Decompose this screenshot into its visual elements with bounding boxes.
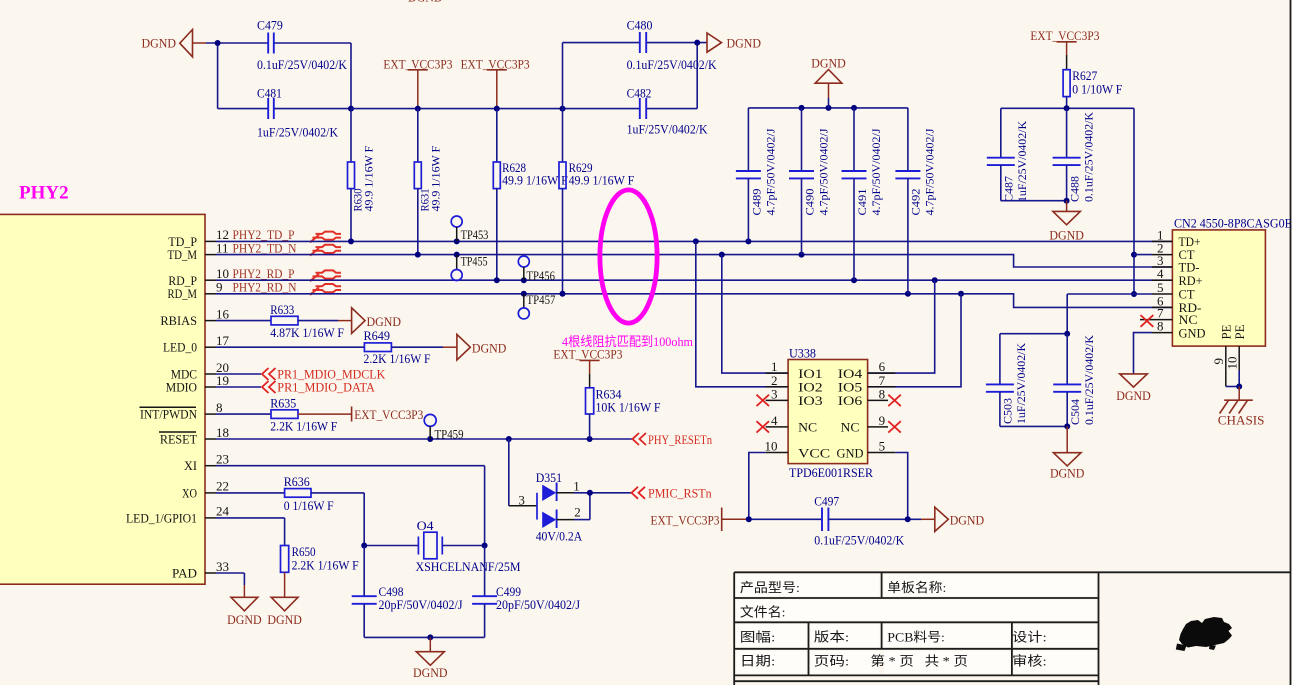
- svg-text:C481: C481: [257, 86, 282, 101]
- svg-text:C480: C480: [627, 18, 653, 33]
- pin CN2.5 CT: [1067, 280, 1194, 302]
- svg-text:49.9 1/16W F: 49.9 1/16W F: [569, 173, 635, 188]
- svg-text:CHASIS: CHASIS: [1218, 412, 1265, 427]
- svg-text:20pF/50V/0402/J: 20pF/50V/0402/J: [496, 597, 580, 612]
- svg-text:DGND: DGND: [1050, 466, 1085, 481]
- diff pair marker TD_N: [310, 245, 341, 256]
- svg-text:DGND: DGND: [811, 55, 846, 70]
- svg-text:PHY2_RD_N: PHY2_RD_N: [233, 280, 298, 295]
- svg-text:EXT_VCC3P3: EXT_VCC3P3: [651, 512, 720, 527]
- wire U338 IO1 to TD_M: [722, 255, 788, 374]
- crystal O4: [361, 518, 521, 574]
- svg-text:33: 33: [216, 559, 229, 574]
- wire TD_P line: [216, 238, 1172, 244]
- svg-text:10K 1/16W F: 10K 1/16W F: [596, 400, 661, 415]
- capacitor C497: [746, 493, 921, 547]
- pin RD_M 9: [168, 280, 223, 302]
- svg-text:2.2K 1/16W F: 2.2K 1/16W F: [364, 351, 431, 366]
- diff pair marker RD_P: [310, 270, 341, 281]
- testpoint TP453: [451, 216, 488, 242]
- svg-text:10: 10: [1225, 357, 1240, 370]
- wire PE join: [1226, 384, 1242, 401]
- pin U338.1 IO1: [766, 359, 823, 381]
- wire XO to crystal: [363, 493, 365, 546]
- svg-text:R635: R635: [270, 395, 296, 410]
- IC U338: [788, 346, 873, 481]
- pin CN2.8 GND: [1134, 319, 1206, 374]
- svg-text:2.2K 1/16W F: 2.2K 1/16W F: [270, 418, 337, 433]
- net marker PHY_RESETn: [633, 432, 713, 447]
- title block white fields: [736, 574, 1097, 673]
- svg-text:19: 19: [216, 373, 229, 388]
- pin LED_1/GPIO1 24: [126, 504, 285, 546]
- pin U338.8 IO6: [838, 386, 901, 408]
- pin RD_P 10: [168, 266, 229, 288]
- capacitor C487: [987, 108, 1029, 202]
- svg-text:C479: C479: [257, 18, 283, 33]
- pin CN2.1 TD+: [1152, 227, 1201, 249]
- svg-text:16: 16: [216, 306, 230, 321]
- svg-text:5: 5: [879, 439, 886, 454]
- svg-text:IO6: IO6: [838, 393, 863, 408]
- svg-text:PCB料号:: PCB料号:: [887, 630, 945, 645]
- svg-text:TD_M: TD_M: [168, 247, 198, 262]
- svg-text:LED_0: LED_0: [163, 340, 197, 355]
- svg-text:文件名:: 文件名:: [740, 605, 786, 620]
- svg-text:RD_M: RD_M: [168, 286, 198, 301]
- svg-text:C491: C491: [857, 188, 869, 215]
- wire C503/C504 rail: [1000, 294, 1070, 337]
- svg-text:DGND: DGND: [950, 513, 985, 528]
- IC PHY2 block: [0, 183, 205, 585]
- ground DGND (crystal): [413, 652, 448, 681]
- resistor R650: [281, 544, 359, 597]
- svg-text:C489: C489: [752, 188, 764, 215]
- svg-text:审核:: 审核:: [1012, 654, 1047, 669]
- power EXT_VCC3P3 (R631): [383, 56, 452, 108]
- svg-text:DGND: DGND: [227, 612, 262, 627]
- svg-text:NC: NC: [841, 420, 860, 435]
- svg-text:D351: D351: [536, 470, 562, 485]
- IC CN2 connector: [1172, 215, 1292, 346]
- ground DGND (PAD): [227, 597, 262, 627]
- pin U338.5 GND: [837, 439, 908, 520]
- svg-text:IO3: IO3: [798, 393, 823, 408]
- signature scribble: [1176, 617, 1232, 651]
- pin XO 22: [182, 479, 229, 501]
- svg-text:产品型号:: 产品型号:: [740, 580, 800, 595]
- svg-text:2.2K 1/16W F: 2.2K 1/16W F: [292, 557, 359, 572]
- svg-text:0.1uF/25V/0402/K: 0.1uF/25V/0402/K: [1084, 334, 1096, 425]
- resistor R633: [216, 302, 352, 340]
- capacitor C489: [736, 108, 778, 242]
- svg-text:DGND: DGND: [142, 36, 177, 51]
- svg-text:RD+: RD+: [1179, 273, 1203, 288]
- svg-text:LED_1/GPIO1: LED_1/GPIO1: [126, 510, 197, 525]
- svg-text:PHY2: PHY2: [19, 183, 69, 204]
- ground DGND (C497): [921, 507, 984, 531]
- pin PAD 33: [172, 559, 244, 598]
- highlight ellipse: [600, 190, 657, 323]
- svg-text:日期:: 日期:: [740, 654, 775, 669]
- svg-text:EXT_VCC3P3: EXT_VCC3P3: [553, 346, 622, 361]
- svg-text:C504: C504: [1070, 399, 1082, 425]
- capacitor C482: [627, 86, 709, 137]
- svg-text:4.7pF/50V/0402/J: 4.7pF/50V/0402/J: [925, 128, 937, 216]
- svg-text:第 * 页 共 * 页: 第 * 页 共 * 页: [871, 654, 968, 669]
- pin CN2.2 CT: [1134, 241, 1195, 263]
- svg-text:4: 4: [1157, 266, 1164, 281]
- svg-text:0.1uF/25V/0402/K: 0.1uF/25V/0402/K: [627, 57, 718, 72]
- wire top-left node: [206, 40, 354, 112]
- title block row1 labels: [740, 580, 946, 595]
- diff pair marker RD_N: [310, 284, 341, 295]
- capacitor C488: [1053, 108, 1096, 202]
- resistor R629: [559, 109, 634, 294]
- capacitor C490: [789, 108, 831, 255]
- svg-text:DGND: DGND: [727, 35, 762, 50]
- resistor R628: [493, 109, 568, 281]
- svg-text:49.9 1/16W F: 49.9 1/16W F: [502, 173, 568, 188]
- svg-text:49.9 1/16W F: 49.9 1/16W F: [364, 146, 376, 212]
- capacitor C480: [627, 18, 718, 73]
- pin U338.7 IO5: [838, 373, 896, 395]
- svg-text:DGND: DGND: [472, 341, 507, 356]
- ground DGND (C504): [1050, 453, 1085, 481]
- svg-text:3: 3: [771, 386, 778, 401]
- capacitor C499: [472, 546, 580, 638]
- svg-text:4.7pF/50V/0402/J: 4.7pF/50V/0402/J: [766, 128, 778, 216]
- pin MDC 20: [171, 360, 261, 382]
- wire D351 branch: [509, 439, 537, 507]
- svg-text:GND: GND: [837, 445, 864, 460]
- svg-text:4.87K 1/16W F: 4.87K 1/16W F: [270, 325, 344, 340]
- svg-text:MDIO: MDIO: [166, 380, 197, 395]
- power EXT_VCC3P3 (R627): [1030, 28, 1099, 70]
- svg-text:单板名称:: 单板名称:: [887, 580, 946, 595]
- testpoint TP455: [451, 253, 487, 280]
- svg-text:C488: C488: [1070, 176, 1082, 202]
- svg-text:XI: XI: [184, 458, 197, 473]
- wire C503/C504 ground rail: [1000, 423, 1070, 452]
- svg-text:40V/0.2A: 40V/0.2A: [536, 529, 583, 544]
- wire R627 rail: [1001, 105, 1137, 297]
- svg-text:8: 8: [879, 386, 886, 401]
- svg-text:PR1_MDIO_DATA: PR1_MDIO_DATA: [277, 380, 375, 395]
- svg-text:TP456: TP456: [527, 268, 556, 283]
- svg-text:INT/PWDN: INT/PWDN: [140, 407, 198, 422]
- net marker PR1_MDIO_MDCLK: [262, 367, 386, 382]
- wire C480 branch: [563, 40, 708, 109]
- power EXT_VCC3P3 (R635): [352, 407, 424, 422]
- svg-text:49.9 1/16W F: 49.9 1/16W F: [430, 146, 442, 212]
- svg-text:R649: R649: [364, 328, 391, 343]
- ground DGND (C488): [1049, 211, 1084, 242]
- svg-text:4.7pF/50V/0402/J: 4.7pF/50V/0402/J: [819, 128, 831, 216]
- svg-text:PE: PE: [1232, 324, 1247, 339]
- pin U338.6 IO4: [838, 359, 896, 381]
- svg-text:9: 9: [879, 413, 886, 428]
- svg-text:C482: C482: [627, 86, 652, 101]
- svg-text:VCC: VCC: [798, 445, 830, 460]
- svg-text:EXT_VCC3P3: EXT_VCC3P3: [354, 407, 423, 422]
- pin CN2.9 PE: [1211, 324, 1234, 386]
- pin CN2.10 PE: [1225, 324, 1248, 386]
- svg-text:图幅:: 图幅:: [740, 630, 775, 645]
- svg-text:17: 17: [216, 333, 230, 348]
- capacitor C492: [895, 108, 936, 294]
- diode D351: [536, 470, 632, 544]
- pin U338.2 IO2: [766, 373, 823, 395]
- net marker PMIC_RSTn: [632, 486, 713, 501]
- svg-text:0 1/10W F: 0 1/10W F: [1072, 81, 1122, 96]
- capacitor C503: [986, 334, 1028, 427]
- svg-text:R633: R633: [270, 302, 294, 317]
- ground DGND (R650): [267, 597, 302, 627]
- svg-text:页码:: 页码:: [814, 654, 849, 669]
- svg-text:C503: C503: [1003, 398, 1015, 424]
- svg-text:C492: C492: [911, 188, 923, 215]
- wire crystal ground rail: [364, 634, 484, 651]
- wire U338 IO2 to TD_P: [696, 241, 788, 386]
- svg-text:TP455: TP455: [461, 253, 488, 268]
- svg-text:0.1uF/25V/0402/K: 0.1uF/25V/0402/K: [814, 533, 905, 548]
- testpoint TP457: [518, 292, 556, 319]
- resistor R635: [216, 395, 352, 433]
- wire RESET net: [216, 436, 632, 442]
- svg-text:20pF/50V/0402/J: 20pF/50V/0402/J: [379, 597, 463, 612]
- svg-text:DGND: DGND: [408, 0, 443, 5]
- svg-text:O4: O4: [417, 518, 435, 533]
- svg-text:4.7pF/50V/0402/J: 4.7pF/50V/0402/J: [871, 128, 883, 216]
- pin INT/PWDN 8: [140, 400, 223, 422]
- svg-text:XO: XO: [182, 485, 197, 500]
- title block row4 labels: [740, 654, 1047, 669]
- pin XI 23: [184, 452, 485, 546]
- net marker PR1_MDIO_DATA: [262, 380, 375, 395]
- svg-text:PAD: PAD: [172, 566, 197, 581]
- wire RD_M line: [216, 291, 1172, 308]
- svg-text:DGND: DGND: [367, 314, 402, 329]
- svg-text:PHY_RESETn: PHY_RESETn: [648, 432, 712, 447]
- pin CN2.4 RD+: [1152, 266, 1203, 288]
- svg-text:R636: R636: [284, 474, 310, 489]
- capacitor C504: [1053, 334, 1096, 427]
- ground DGND (CN2 GND): [1116, 374, 1151, 403]
- power EXT_VCC3P3 (C497): [651, 508, 749, 532]
- ground DGND (top rail): [811, 55, 846, 108]
- svg-text:2: 2: [574, 504, 581, 519]
- pin RBIAS 16: [160, 306, 229, 328]
- svg-text:TP457: TP457: [527, 292, 556, 307]
- title block table: [734, 572, 1290, 685]
- svg-text:1uF/25V/0402/K: 1uF/25V/0402/K: [257, 125, 339, 140]
- svg-text:C487: C487: [1004, 176, 1016, 202]
- wire power rail: [351, 106, 697, 112]
- svg-text:0.1uF/25V/0402/K: 0.1uF/25V/0402/K: [257, 57, 348, 72]
- resistor R630: [348, 109, 376, 242]
- pin CN2.3 TD-: [1152, 253, 1200, 275]
- title block row3 labels: [740, 630, 1047, 645]
- power EXT_VCC3P3 (R634): [553, 346, 622, 388]
- svg-text:8: 8: [1157, 319, 1164, 334]
- svg-text:0 1/16W F: 0 1/16W F: [284, 498, 334, 513]
- pin CN2.6 RD-: [1152, 293, 1202, 315]
- svg-text:1uF/25V/0402/K: 1uF/25V/0402/K: [1016, 342, 1028, 424]
- svg-text:DGND: DGND: [1049, 228, 1084, 243]
- pin U338.9 NC: [841, 413, 901, 435]
- svg-text:EXT_VCC3P3: EXT_VCC3P3: [1030, 28, 1099, 43]
- svg-text:24: 24: [216, 504, 230, 519]
- svg-text:TPD6E001RSER: TPD6E001RSER: [789, 465, 873, 480]
- testpoint TP459: [424, 414, 463, 441]
- wire C487/C488 ground rail: [1001, 198, 1070, 212]
- testpoint TP456: [518, 256, 555, 283]
- svg-text:9: 9: [216, 280, 223, 295]
- svg-text:版本:: 版本:: [814, 630, 849, 645]
- svg-text:22: 22: [216, 479, 229, 494]
- capacitor C481: [257, 86, 339, 140]
- diff pair marker TD_P: [310, 232, 341, 243]
- wire TD_M line: [216, 252, 1172, 267]
- pin TD_M 11: [168, 240, 229, 262]
- svg-text:C490: C490: [805, 188, 817, 215]
- svg-text:TP459: TP459: [435, 427, 464, 442]
- svg-text:U338: U338: [789, 346, 816, 361]
- resistor R636: [216, 474, 364, 513]
- pin TD_P 12: [168, 227, 229, 249]
- svg-text:PMIC_RSTn: PMIC_RSTn: [648, 486, 712, 501]
- pin LED_0 17: [163, 333, 230, 355]
- svg-text:1uF/25V/0402/K: 1uF/25V/0402/K: [627, 122, 709, 137]
- svg-text:3: 3: [518, 492, 525, 507]
- ground CHASIS: [1218, 400, 1265, 427]
- capacitor C479: [257, 18, 348, 73]
- svg-text:DGND: DGND: [267, 612, 302, 627]
- pin U338.10 VCC: [749, 439, 830, 520]
- svg-text:1uF/25V/0402/K: 1uF/25V/0402/K: [1017, 120, 1029, 202]
- pin RESET 18: [159, 425, 229, 447]
- resistor R627: [1063, 68, 1122, 109]
- svg-text:RESET: RESET: [160, 432, 197, 447]
- svg-text:23: 23: [216, 452, 229, 467]
- ground DGND (C480): [707, 33, 761, 52]
- sheet border right: [1290, 0, 1292, 685]
- wire U338 IO5 to RD_M: [868, 294, 961, 387]
- capacitor C498: [352, 546, 463, 638]
- wire U338 IO4 to RD_P: [868, 280, 935, 373]
- svg-text:GND: GND: [1179, 325, 1206, 340]
- wire RD_P line: [216, 277, 1172, 283]
- ground DGND top-left: [142, 30, 207, 57]
- pin CN2.7 NC: [1140, 306, 1198, 328]
- svg-text:11: 11: [216, 240, 229, 255]
- svg-text:8: 8: [216, 400, 223, 415]
- capacitor C491: [842, 108, 884, 280]
- svg-text:10: 10: [765, 439, 778, 454]
- pin U338.3 IO3: [757, 386, 823, 408]
- svg-text:NC: NC: [798, 420, 817, 435]
- svg-text:CN2 4550-8P8CASG0E: CN2 4550-8P8CASG0E: [1174, 215, 1292, 230]
- svg-text:XSHCELNANF/25M: XSHCELNANF/25M: [416, 559, 521, 574]
- svg-text:C497: C497: [814, 493, 839, 508]
- pin MDIO 19: [166, 373, 261, 395]
- svg-text:PHY2_TD_N: PHY2_TD_N: [233, 240, 298, 255]
- svg-text:0.1uF/25V/0402/K: 0.1uF/25V/0402/K: [1084, 111, 1096, 202]
- svg-text:18: 18: [216, 425, 229, 440]
- svg-text:TP453: TP453: [461, 227, 489, 242]
- resistor R631: [414, 109, 442, 255]
- ground DGND (R633): [352, 308, 401, 334]
- power EXT_VCC3P3 (R628): [461, 56, 530, 108]
- svg-text:1: 1: [573, 478, 580, 493]
- ground DGND (R649): [457, 334, 507, 360]
- resistor R649: [216, 328, 457, 366]
- resistor R634: [586, 386, 661, 439]
- pin U338.4 NC: [757, 413, 818, 435]
- svg-text:DGND: DGND: [413, 665, 448, 680]
- svg-text:RBIAS: RBIAS: [160, 313, 197, 328]
- svg-text:4: 4: [771, 413, 778, 428]
- svg-text:设计:: 设计:: [1012, 630, 1047, 645]
- svg-text:DGND: DGND: [1116, 388, 1151, 403]
- ground DGND rail (C489-C492): [748, 105, 908, 111]
